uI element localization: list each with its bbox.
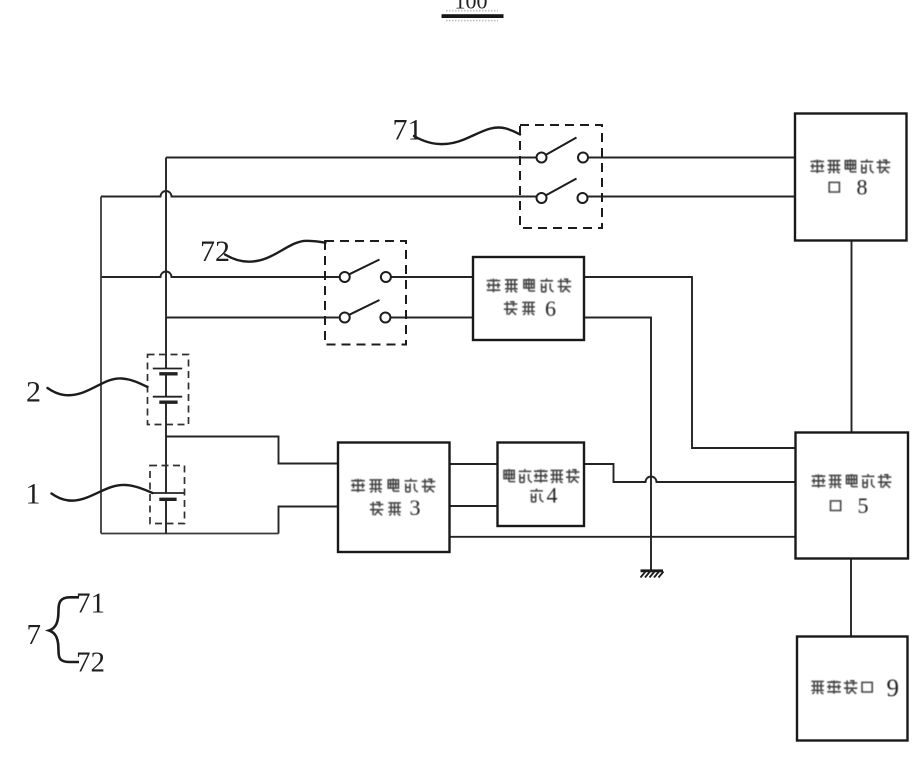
svg-text:72: 72 [76, 647, 105, 679]
svg-text:9: 9 [887, 675, 900, 702]
label 1 with leader [26, 478, 153, 511]
wire: S71 upper pole to interface 8 [588, 157, 795, 159]
svg-text:6: 6 [545, 296, 556, 321]
svg-text:71: 71 [393, 114, 423, 147]
switch 72 dashed box [325, 241, 406, 345]
box 6 label [487, 278, 571, 321]
label 72 with leader [200, 235, 326, 268]
box: second DC converter 6 [473, 257, 584, 340]
box 3 label [351, 479, 435, 521]
wire: converter 3 to BMS 4 upper [450, 463, 498, 465]
wire: converter 6 lower output to ground [584, 318, 651, 571]
wire: interface 8 to interface 5 [851, 241, 853, 433]
wire: S71 lower pole to interface 8 [588, 196, 795, 198]
box 9 label [811, 675, 899, 702]
svg-text:71: 71 [76, 588, 105, 620]
wire: battery mid tap to converter 3 upper input [166, 437, 338, 464]
battery cell 2a [153, 369, 182, 374]
wire: converter 6 upper output to interface 5 [584, 277, 796, 448]
switch 71 dashed box [520, 125, 602, 228]
svg-text:4: 4 [547, 483, 558, 508]
wire: interface 5 to signal interface 9 [850, 559, 852, 637]
figure number 100 [442, 0, 504, 21]
label 71 with leader [393, 114, 521, 147]
wire: S72 upper pole to converter 6 [391, 276, 473, 278]
wire: battery positive rail to switch S71 upper pole [166, 157, 537, 159]
box: second power interface 8 [795, 114, 907, 241]
box 8 label [811, 159, 891, 199]
switch 71 upper contact [537, 138, 589, 163]
box: battery management system 4 [498, 443, 585, 527]
svg-text:8: 8 [857, 175, 868, 200]
ground [641, 571, 664, 578]
svg-text:3: 3 [410, 495, 421, 520]
wire: BMS 4 output to interface 5 with hop over ground line [584, 464, 796, 482]
svg-text:1: 1 [26, 478, 41, 511]
battery cell 1 [152, 493, 184, 499]
battery cell 2b [153, 397, 182, 403]
wire: negative rail to switch S71 lower pole with hop [101, 191, 537, 197]
battery group 2 dashed box [148, 355, 189, 425]
svg-text:2: 2 [26, 376, 41, 409]
wire: battery bottom negative run [101, 533, 279, 535]
box: first power interface 5 [796, 433, 909, 559]
svg-text:72: 72 [200, 235, 230, 268]
svg-text:7: 7 [27, 619, 42, 651]
switch 72 lower contact [340, 300, 391, 323]
box: signal interface 9 [797, 637, 908, 741]
box: first DC converter 3 [338, 443, 450, 553]
wire: battery left negative edge [100, 197, 102, 534]
svg-text:5: 5 [858, 493, 869, 518]
switch 72 upper contact [340, 260, 391, 283]
wire: battery string vertical [165, 158, 167, 534]
box 5 label [812, 474, 892, 518]
wire: S72 lower pole to converter 6 [391, 317, 473, 319]
wire: converter 3 lower input to bottom negative run [279, 507, 339, 534]
label 7 with brace for 71 and 72 [27, 588, 106, 679]
wire: converter 3 bottom output to interface 5 [450, 536, 796, 538]
switch 71 lower contact [537, 179, 588, 204]
wire: battery positive to switch S72 lower pole [166, 317, 340, 319]
battery group 1 dashed box [150, 466, 185, 524]
wire: negative rail to switch S72 upper pole with hop [101, 272, 340, 278]
label 2 with leader [26, 376, 148, 409]
box 4 label [504, 469, 579, 508]
wire: converter 3 to BMS 4 lower [450, 505, 498, 507]
